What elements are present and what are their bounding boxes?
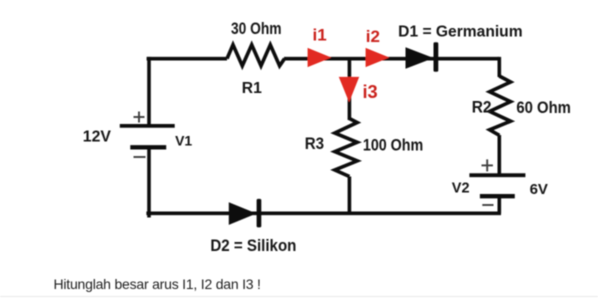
battery V1 long plate [120,124,175,128]
wire right vertical lower [497,196,501,213]
faint divider line [0,296,598,298]
battery V2 long plate [469,173,525,177]
current arrow i3 [339,77,359,102]
current arrow i1 [308,48,332,67]
svg-text:V1: V1 [175,132,192,148]
wire bottom horizontal [146,212,501,216]
svg-text:V2: V2 [452,181,470,197]
svg-text:30 Ohm: 30 Ohm [231,20,282,38]
wire top-left horizontal segment [147,57,227,61]
wire middle vertical (R3 branch) upper [348,59,352,120]
wire right vertical middle [497,135,501,175]
svg-text:R1: R1 [242,80,262,97]
svg-text:R2: R2 [472,99,492,117]
svg-text:i1: i1 [313,26,327,45]
V2 minus sign [482,204,493,206]
svg-text:6V: 6V [530,181,548,198]
V2 plus sign [482,159,493,171]
svg-text:60 Ohm: 60 Ohm [516,98,571,117]
svg-text:12V: 12V [83,128,111,145]
svg-text:D1 = Germanium: D1 = Germanium [398,23,522,40]
battery V1 short plate [130,145,166,149]
wire left vertical lower [147,147,151,217]
current arrow i2 [366,48,390,67]
svg-text:i2: i2 [366,27,380,46]
wire middle vertical (R3 branch) lower [348,177,352,214]
resistor R3 [335,119,357,177]
V1 plus sign [134,112,145,123]
diode D2 bar [257,199,262,228]
wire top middle segment [284,57,499,61]
svg-text:D2 = Silikon: D2 = Silikon [210,236,296,255]
resistor R1 [227,45,285,66]
diode D1 triangle [406,47,434,68]
diode D2 triangle [229,202,257,225]
battery V2 short plate [480,194,515,198]
svg-text:Hitunglah besar arus I1, I2 da: Hitunglah besar arus I1, I2 dan I3 ! [54,276,261,292]
resistor R2 [490,76,511,135]
svg-text:R3: R3 [305,134,324,153]
V1 minus sign [134,156,146,158]
svg-text:i3: i3 [363,82,378,102]
svg-text:100 Ohm: 100 Ohm [363,136,423,155]
wire right vertical upper [497,57,501,77]
wire left vertical upper [147,57,151,126]
diode D1 bar [434,42,439,72]
